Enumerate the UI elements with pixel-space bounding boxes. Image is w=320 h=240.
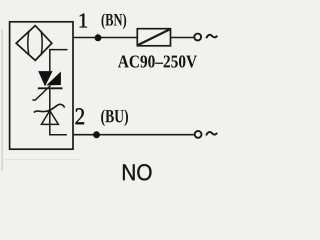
label (BN) [102,13,127,29]
label pin 1 [80,14,87,28]
pin 1 junction dot [95,34,102,41]
lens arcs inside diamond [28,31,42,56]
label AC90-250V [118,55,197,67]
zener diode triangle [41,111,58,125]
AC source tilde 2 [206,132,217,135]
pin 1 wire box to load [73,37,137,39]
load diagonal [138,29,170,45]
AC source tilde 1 [206,35,217,38]
AC terminal 1 circle [194,34,201,41]
AC terminal 2 circle [195,131,202,138]
triac gate [32,86,50,101]
pin 2 wire [73,134,194,136]
label NO [123,164,151,180]
zener wavy cathode bar [34,104,65,112]
load resistor rectangle [137,29,170,46]
pin 2 junction dot [93,131,100,138]
proximity sensor symbol: diamond [16,26,52,61]
wire load to AC terminal 1 [171,37,195,39]
internal wire: sensor to triac [50,50,68,72]
triac left triangle [38,71,52,86]
scan artifact line below box [4,159,80,160]
label (BU) [101,109,128,126]
triac bar [38,87,63,89]
triac right triangle [46,72,61,86]
label pin 2 [76,108,84,124]
scan artifact line left edge [2,29,3,171]
sensor body box [10,22,73,149]
wire triac to zener and down to pin2 corner [50,89,67,135]
